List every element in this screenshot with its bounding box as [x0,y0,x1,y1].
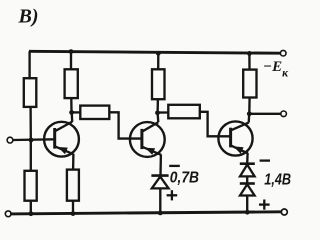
terminal bottom left [5,211,11,217]
wire rail to R8 [248,53,250,69]
transistor VT3 [218,121,252,155]
node top rail R6 [156,51,161,56]
resistor R8 [243,70,256,98]
transistor VT2 [130,122,165,157]
wire R4 to bottom rail [72,201,74,214]
label plus VD1 [167,190,178,200]
resistor R3 [65,69,78,98]
wire collector VT2 up [156,113,159,122]
wire R8 to collector node VT3 [248,98,251,114]
label plus VD3 [259,200,270,210]
wire emitter VT2 down [159,155,162,176]
wire output [249,113,281,115]
node R2 bottom rail [29,211,34,216]
resistor R6 [152,69,165,99]
wire VD2 to VD3 [246,176,248,183]
terminal output [281,111,287,117]
wire rail to R3 [70,52,72,70]
node VD1 bottom rail [158,211,163,216]
wire R2 to bottom rail [30,201,32,214]
resistor R7 coupling [168,105,200,119]
wire input to base VT1 [13,138,55,141]
wire emitter VT1 down [72,154,75,170]
diode VD1 [151,176,168,189]
wire bottom rail [10,212,281,214]
wire rail to R6 [157,53,159,69]
node collector VT2 [155,110,160,115]
label minus VD1 [169,165,180,167]
wire VD3 to bottom rail [246,196,248,213]
wire node to R5 [72,111,81,113]
wire node to R7 [158,111,169,113]
resistor R4 [67,170,79,201]
node collector VT3 [247,111,252,116]
node input divider [29,138,34,143]
terminal +Ek top right [280,50,286,56]
wire top rail [29,51,280,53]
resistor R2 [25,171,37,201]
resistor R1 [24,78,37,107]
wire VD1 to bottom rail [159,188,161,213]
wire emitter VT3 down [246,153,249,164]
node top rail R8 [247,51,252,56]
node collector VT1 [69,110,74,115]
wire R1 to input node [29,107,32,140]
svg-text:1,4В: 1,4В [264,171,291,188]
diode VD2 [240,164,255,177]
wire left column top [28,51,31,78]
resistor R5 coupling [80,106,109,119]
svg-text:0,7В: 0,7В [170,170,199,187]
node R4 bottom rail [71,211,76,216]
svg-text:В): В) [18,6,39,28]
wire R5 to base VT2 [109,112,142,138]
label minus VD2 [260,159,270,161]
transistor VT1 [44,122,79,157]
wire collector VT1 up [71,112,74,122]
node VD3 bottom rail [245,210,250,215]
wire collector VT3 up [248,114,251,123]
wire node to R2 [30,140,32,171]
terminal bottom right [281,209,287,215]
wire R6 to collector node VT2 [156,99,159,113]
diode VD3 [240,184,255,196]
node top rail R3 [69,49,74,54]
wire R7 to base VT3 [200,112,231,137]
wire R3 to collector node VT1 [70,98,73,112]
terminal input [7,137,13,143]
